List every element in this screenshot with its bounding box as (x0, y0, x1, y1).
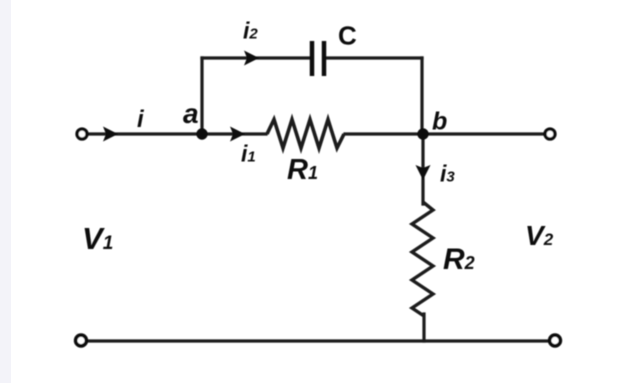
capacitor C (312, 41, 324, 76)
wire: node a up to top branch (200, 58, 203, 134)
svg-text:b: b (432, 108, 447, 136)
wire: node b down to resistor R2 (421, 134, 424, 204)
wire: bottom rail (86, 339, 550, 342)
svg-text:i2: i2 (243, 18, 258, 44)
current arrow i (103, 127, 118, 142)
wire: resistor R2 to bottom rail (422, 314, 425, 341)
svg-text:V2: V2 (525, 220, 554, 251)
svg-text:i: i (137, 106, 145, 133)
svg-text:R2: R2 (443, 243, 475, 276)
svg-text:i1: i1 (241, 141, 256, 167)
resistor R2 (412, 202, 433, 316)
svg-text:C: C (338, 21, 357, 51)
wire: capacitor right plate to top-right corner (326, 56, 422, 59)
wire: node a to R1 left lead (202, 132, 266, 135)
current arrow i3 (416, 165, 431, 180)
wire: top-right corner down to node b (420, 58, 423, 134)
node b junction dot (417, 128, 428, 139)
node a junction dot (196, 128, 207, 139)
wire: node b to output terminal (423, 132, 545, 135)
resistor R1 (267, 120, 344, 149)
svg-text:a: a (183, 98, 199, 129)
input terminal (top left) (77, 129, 87, 139)
wire: input terminal to node a (87, 132, 202, 135)
bottom-left terminal (76, 335, 87, 346)
svg-text:R1: R1 (287, 154, 318, 186)
current arrow i2 (244, 51, 259, 66)
svg-text:i3: i3 (440, 161, 455, 187)
svg-text:V1: V1 (82, 221, 113, 256)
current arrow i1 (230, 127, 245, 142)
wire: top branch to capacitor left plate (202, 56, 310, 59)
wire: R1 right lead to node b (345, 132, 423, 135)
bottom-right terminal (550, 335, 561, 346)
output terminal (top right) (545, 129, 555, 139)
